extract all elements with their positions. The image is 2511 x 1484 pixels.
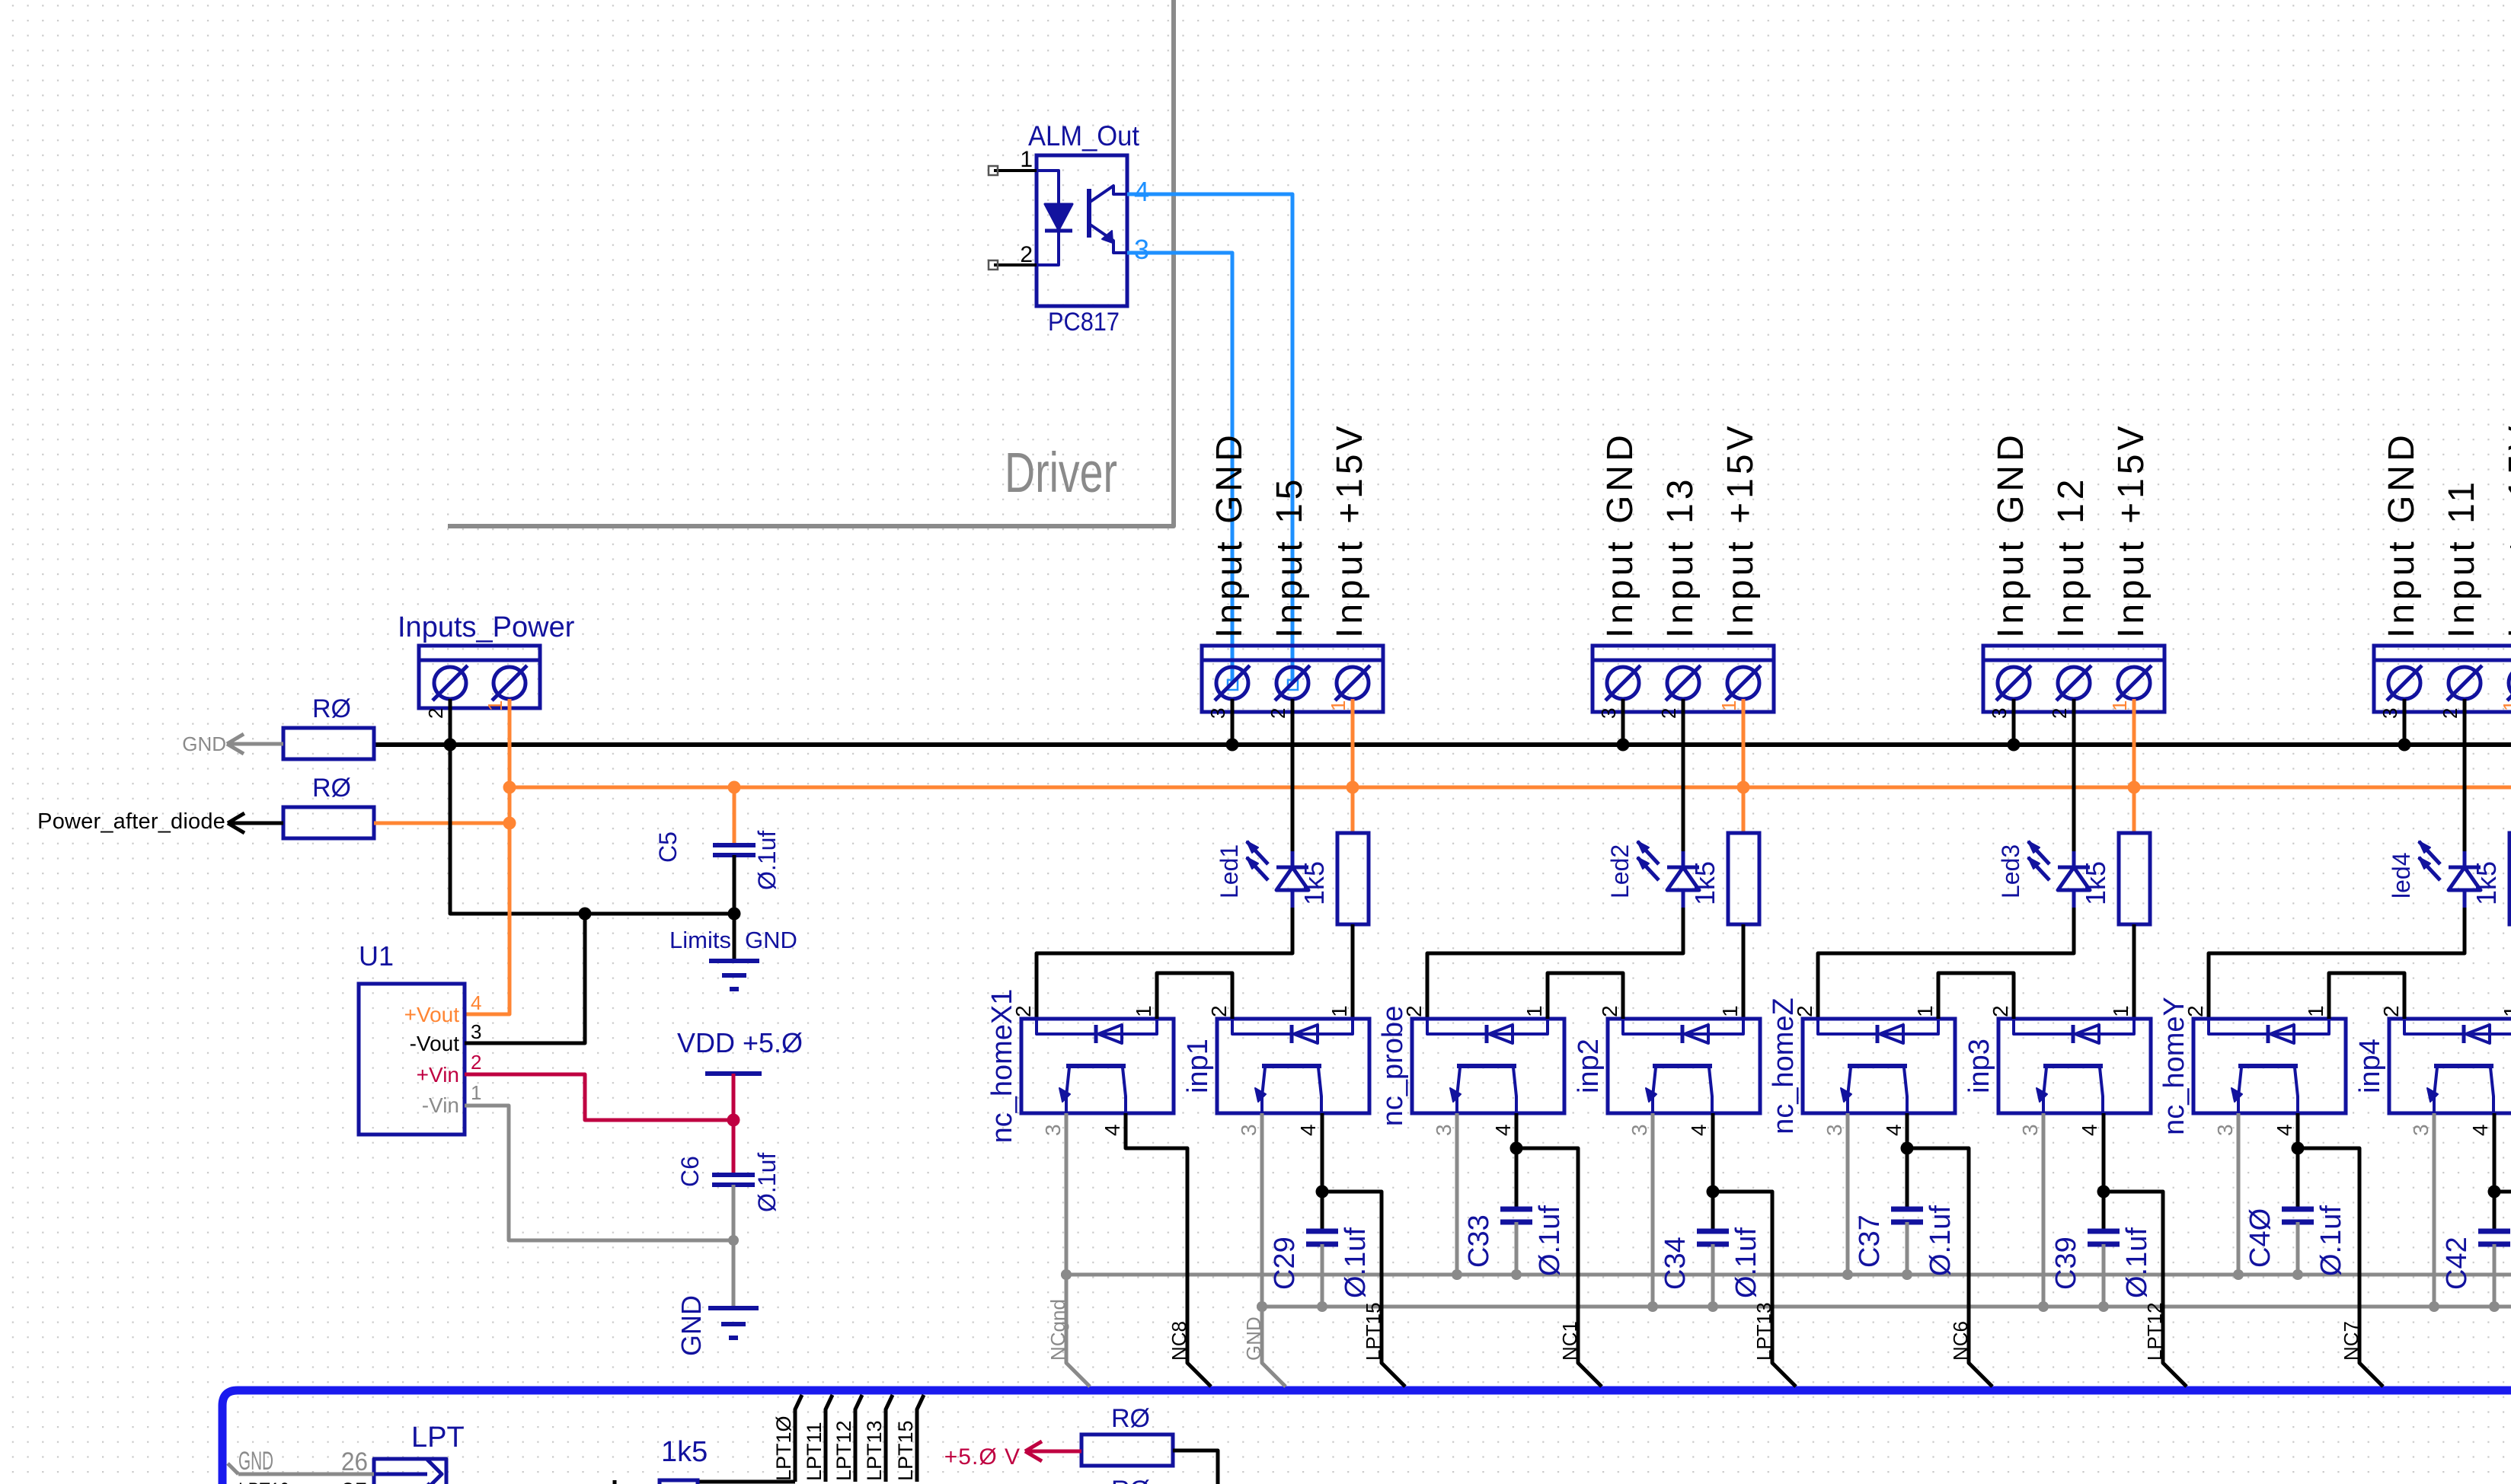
svg-text:4: 4 xyxy=(1134,176,1149,207)
svg-text:1: 1 xyxy=(1327,701,1350,711)
svg-text:Input +15V: Input +15V xyxy=(1720,422,1761,638)
svg-text:1: 1 xyxy=(1522,1005,1546,1017)
svg-text:Led2: Led2 xyxy=(1606,844,1634,898)
svg-text:LPT13: LPT13 xyxy=(1752,1302,1775,1361)
svg-text:4: 4 xyxy=(1296,1124,1320,1136)
svg-text:Ø.1uf: Ø.1uf xyxy=(1925,1205,1957,1276)
svg-text:Ø.1uf: Ø.1uf xyxy=(753,1153,781,1212)
svg-text:2: 2 xyxy=(471,1051,481,1074)
svg-text:2: 2 xyxy=(1657,708,1680,719)
svg-text:2: 2 xyxy=(1207,1005,1231,1017)
svg-text:Ø.1uf: Ø.1uf xyxy=(753,831,781,890)
svg-text:Input 13: Input 13 xyxy=(1660,476,1701,638)
svg-text:ALM_Out: ALM_Out xyxy=(1028,120,1140,152)
svg-text:3: 3 xyxy=(471,1020,481,1043)
svg-text:1k5: 1k5 xyxy=(1299,861,1330,905)
svg-text:VDD +5.Ø: VDD +5.Ø xyxy=(677,1027,803,1058)
svg-text:LPT13: LPT13 xyxy=(238,1478,289,1484)
svg-text:4: 4 xyxy=(1882,1124,1906,1136)
svg-text:LPT: LPT xyxy=(411,1422,465,1454)
svg-text:C6: C6 xyxy=(676,1156,704,1187)
svg-text:3: 3 xyxy=(1823,1124,1846,1136)
svg-text:2: 2 xyxy=(1989,1005,2012,1017)
svg-text:Driver: Driver xyxy=(1005,441,1117,504)
svg-text:RØ: RØ xyxy=(312,694,351,723)
svg-text:NC8: NC8 xyxy=(1168,1321,1190,1361)
svg-text:Input +15V: Input +15V xyxy=(2111,422,2152,638)
svg-text:LPT12: LPT12 xyxy=(832,1420,855,1481)
svg-text:+5.Ø V: +5.Ø V xyxy=(944,1444,1021,1470)
svg-text:Ø.1uf: Ø.1uf xyxy=(2121,1227,2153,1298)
svg-text:4: 4 xyxy=(1687,1124,1711,1136)
svg-text:GND: GND xyxy=(745,927,797,953)
svg-text:C37: C37 xyxy=(1854,1214,1886,1268)
svg-text:Input +15V: Input +15V xyxy=(2502,422,2511,638)
svg-text:1: 1 xyxy=(471,1081,481,1104)
svg-text:2: 2 xyxy=(1020,242,1033,267)
svg-text:LPT1Ø: LPT1Ø xyxy=(772,1415,795,1481)
svg-text:C42: C42 xyxy=(2441,1237,2473,1290)
svg-text:Limits: Limits xyxy=(669,927,731,953)
svg-text:4: 4 xyxy=(1491,1124,1515,1136)
svg-text:4: 4 xyxy=(1101,1124,1124,1136)
svg-text:+Vout: +Vout xyxy=(404,1003,460,1026)
svg-text:1k5: 1k5 xyxy=(661,1436,708,1468)
svg-text:+Vin: +Vin xyxy=(417,1063,459,1087)
svg-text:C29: C29 xyxy=(1269,1237,1301,1290)
svg-text:LPT12: LPT12 xyxy=(2143,1302,2166,1361)
svg-text:NCgnd: NCgnd xyxy=(1046,1299,1069,1361)
svg-text:1k5: 1k5 xyxy=(2080,861,2111,905)
svg-text:LPT11: LPT11 xyxy=(803,1422,826,1481)
svg-text:C34: C34 xyxy=(1660,1237,1692,1290)
svg-text:GND: GND xyxy=(676,1295,707,1356)
svg-text:RØ: RØ xyxy=(312,774,351,803)
svg-text:LPT13: LPT13 xyxy=(863,1420,886,1481)
svg-text:Input 12: Input 12 xyxy=(2051,476,2091,638)
svg-text:PC817: PC817 xyxy=(1048,308,1120,337)
svg-text:3: 3 xyxy=(1041,1124,1065,1136)
svg-text:Input GND: Input GND xyxy=(2382,431,2422,638)
svg-text:nc_homeY: nc_homeY xyxy=(2158,997,2190,1135)
svg-text:LPT15: LPT15 xyxy=(1362,1302,1385,1361)
svg-text:LPT15: LPT15 xyxy=(894,1420,917,1481)
svg-text:GND: GND xyxy=(1242,1316,1265,1361)
svg-text:led4: led4 xyxy=(2388,853,2415,899)
svg-text:Input GND: Input GND xyxy=(1600,431,1640,638)
svg-text:NC6: NC6 xyxy=(1949,1321,1972,1361)
svg-text:inp2: inp2 xyxy=(1573,1039,1605,1093)
svg-text:3: 3 xyxy=(1628,1124,1651,1136)
svg-text:inp3: inp3 xyxy=(1963,1039,1995,1093)
svg-text:C4Ø: C4Ø xyxy=(2244,1208,2276,1268)
svg-text:U1: U1 xyxy=(359,940,394,972)
svg-text:Input 11: Input 11 xyxy=(2442,478,2482,638)
svg-text:26: 26 xyxy=(341,1447,368,1476)
svg-text:2: 2 xyxy=(1267,708,1289,719)
svg-text:1: 1 xyxy=(1717,701,1740,711)
svg-text:1: 1 xyxy=(2304,1005,2327,1017)
svg-text:2: 2 xyxy=(1598,1005,1621,1017)
svg-text:Ø.1uf: Ø.1uf xyxy=(1340,1227,1372,1298)
svg-text:4: 4 xyxy=(2468,1124,2492,1136)
svg-text:Ø.1uf: Ø.1uf xyxy=(1534,1205,1566,1276)
svg-text:3: 3 xyxy=(2213,1124,2237,1136)
svg-text:1: 1 xyxy=(2499,701,2511,711)
svg-text:inp1: inp1 xyxy=(1182,1039,1214,1093)
svg-text:NC1: NC1 xyxy=(1558,1321,1581,1361)
svg-text:RØ: RØ xyxy=(1111,1404,1150,1433)
svg-text:nc_homeZ: nc_homeZ xyxy=(1768,997,1800,1135)
svg-text:1: 1 xyxy=(2500,1005,2511,1017)
svg-text:Inputs_Power: Inputs_Power xyxy=(398,611,575,643)
svg-text:-Vout: -Vout xyxy=(410,1032,460,1055)
svg-text:3: 3 xyxy=(2409,1124,2433,1136)
svg-text:nc_homeX1: nc_homeX1 xyxy=(986,989,1018,1144)
svg-text:4: 4 xyxy=(2078,1124,2101,1136)
svg-text:C39: C39 xyxy=(2050,1237,2082,1290)
svg-text:3: 3 xyxy=(1206,708,1229,719)
svg-text:Power_after_diode: Power_after_diode xyxy=(37,809,225,834)
svg-text:Input GND: Input GND xyxy=(1209,431,1250,638)
svg-text:3: 3 xyxy=(1988,708,2011,719)
svg-text:2: 2 xyxy=(2048,708,2071,719)
svg-text:3: 3 xyxy=(1237,1124,1260,1136)
svg-text:1: 1 xyxy=(2108,701,2131,711)
svg-text:1: 1 xyxy=(1913,1005,1937,1017)
svg-text:2: 2 xyxy=(2379,1005,2403,1017)
svg-text:Input +15V: Input +15V xyxy=(1330,422,1370,638)
svg-text:4: 4 xyxy=(2273,1124,2296,1136)
svg-text:4: 4 xyxy=(471,991,481,1014)
svg-text:RØ: RØ xyxy=(1111,1476,1150,1484)
svg-text:Input 15: Input 15 xyxy=(1270,476,1310,638)
svg-text:1: 1 xyxy=(2109,1005,2132,1017)
svg-text:1: 1 xyxy=(1132,1005,1155,1017)
svg-text:3: 3 xyxy=(1432,1124,1455,1136)
svg-text:1: 1 xyxy=(1327,1005,1351,1017)
svg-text:Led3: Led3 xyxy=(1997,844,2024,898)
svg-text:inp4: inp4 xyxy=(2354,1039,2386,1093)
svg-text:3: 3 xyxy=(1597,708,1620,719)
svg-text:C5: C5 xyxy=(654,831,682,863)
svg-text:C33: C33 xyxy=(1463,1214,1495,1268)
svg-text:1k5: 1k5 xyxy=(1689,861,1720,905)
svg-text:2: 2 xyxy=(2439,708,2461,719)
svg-text:2: 2 xyxy=(424,708,447,719)
svg-text:25: 25 xyxy=(341,1478,368,1484)
svg-text:GND: GND xyxy=(182,732,226,755)
svg-text:GND: GND xyxy=(238,1447,273,1476)
svg-text:3: 3 xyxy=(2018,1124,2042,1136)
svg-text:1: 1 xyxy=(484,701,506,711)
svg-text:Led1: Led1 xyxy=(1216,844,1243,898)
svg-text:nc_probe: nc_probe xyxy=(1377,1006,1409,1126)
svg-text:Ø.1uf: Ø.1uf xyxy=(1730,1227,1762,1298)
svg-text:NC7: NC7 xyxy=(2340,1321,2362,1361)
svg-text:Ø.1uf: Ø.1uf xyxy=(2315,1205,2347,1276)
svg-text:-Vin: -Vin xyxy=(422,1093,459,1117)
svg-text:1: 1 xyxy=(1718,1005,1742,1017)
svg-text:3: 3 xyxy=(1134,234,1149,265)
svg-text:1k5: 1k5 xyxy=(2471,861,2502,905)
svg-text:Input GND: Input GND xyxy=(1991,431,2031,638)
svg-text:3: 3 xyxy=(2378,708,2401,719)
